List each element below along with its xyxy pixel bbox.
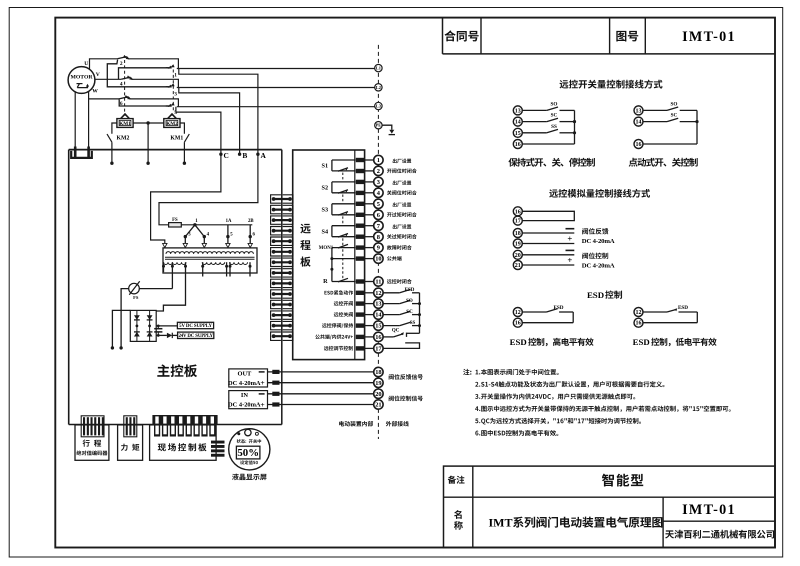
label 智能型: [602, 474, 643, 487]
label 阀位控制: [582, 253, 608, 259]
wire QC switch terminal 16: [383, 332, 419, 337]
board 行程/绝对值编码器: [75, 425, 109, 460]
svg-text:SO: SO: [406, 299, 413, 304]
transformer T1: [163, 248, 257, 273]
tap arrow 5: [227, 237, 229, 244]
terminal 18: [513, 229, 522, 238]
label 故障时闭合: [387, 245, 412, 250]
svg-text:21: 21: [375, 402, 381, 409]
ESD high-level group: [522, 309, 573, 323]
svg-text:3: 3: [377, 179, 380, 186]
switch MON1: [332, 244, 356, 258]
svg-text:50%: 50%: [237, 447, 259, 459]
tap arrow 3: [184, 237, 186, 244]
note line 1: [476, 369, 559, 375]
label 5V DC SUPPLY: [177, 322, 213, 329]
mechanical link KM1: [124, 60, 126, 113]
company 天津百利二通机械有限公司: [665, 530, 774, 539]
switch S4: [332, 226, 356, 237]
transformer secondary windings: [164, 262, 248, 264]
wire motor V to contact 4: [95, 78, 121, 80]
svg-text:14: 14: [515, 120, 521, 126]
label 液晶显示屏: [232, 474, 267, 481]
terminal L3: [375, 102, 382, 109]
svg-text:ESD: ESD: [510, 337, 527, 347]
title block table: [444, 466, 776, 547]
svg-text:IN: IN: [241, 392, 248, 399]
terminal 16: [513, 140, 522, 149]
svg-text:OUT: OUT: [237, 371, 252, 378]
boundary dashed line: [377, 45, 379, 439]
svg-text:W: W: [92, 88, 98, 94]
svg-text:1: 1: [377, 157, 380, 164]
switch S2: [332, 182, 356, 193]
svg-text:IMT-01: IMT-01: [682, 502, 736, 518]
label 备注: [448, 476, 465, 484]
wire phase B feed: [179, 88, 242, 156]
wire IN- to terminal 20: [268, 392, 374, 396]
svg-text:8: 8: [377, 234, 380, 241]
label 力矩: [121, 444, 139, 451]
note line 2: [475, 381, 664, 387]
svg-text:PE: PE: [376, 123, 382, 128]
note line 6: [475, 430, 558, 436]
wire ESD switch terminal 12: [383, 289, 419, 292]
fuse FS2 symbol: [129, 281, 140, 295]
svg-text:16: 16: [515, 142, 521, 148]
wire motor W lead: [88, 91, 90, 147]
wire tap 4 branch: [195, 225, 206, 239]
label 阀位反馈信号: [389, 374, 423, 380]
wire motor W to contact 6: [89, 98, 119, 100]
svg-text:2: 2: [120, 61, 123, 67]
svg-text:L1: L1: [376, 66, 381, 71]
wire SC switch terminal 14: [383, 311, 421, 316]
transformer secondary terminals: [162, 262, 252, 276]
note line 3: [475, 393, 635, 399]
label 点动式开、关控制: [629, 158, 698, 167]
drawing title IMT系列阀门电动装置电气原理图: [489, 516, 663, 530]
label 名称: [454, 510, 462, 519]
label 远控停阀/保持: [322, 323, 353, 328]
wire 5V DC rail: [156, 325, 177, 328]
svg-text:17: 17: [515, 219, 521, 225]
svg-text:SC: SC: [406, 310, 413, 315]
svg-text:16: 16: [515, 321, 521, 327]
svg-text:DC 4-20mA: DC 4-20mA: [582, 263, 615, 270]
svg-text:12: 12: [515, 310, 521, 316]
interlock contact KM2: [107, 123, 117, 165]
contactor KM1 contact 2: [117, 55, 129, 59]
title 远控开关量控制接线方式: [560, 80, 663, 89]
terminal 13: [634, 106, 643, 115]
svg-text:12: 12: [636, 310, 642, 316]
svg-text:12: 12: [375, 290, 381, 297]
capacitor C1: [154, 326, 162, 336]
label 出厂设置: [393, 202, 412, 207]
title ESD控制: [587, 290, 622, 300]
LCD display: [229, 429, 270, 470]
wire feedback -: [522, 229, 574, 233]
ESD low-level group: [643, 308, 697, 322]
wire power bus: [69, 149, 282, 151]
svg-text:SS: SS: [410, 321, 416, 326]
label 现场控制板: [158, 443, 207, 451]
terminal 16: [513, 318, 522, 327]
label 阀位控制信号: [389, 396, 423, 402]
wire jumper 16-17: [383, 343, 419, 349]
terminal 16: [634, 318, 643, 327]
node 1: [193, 223, 196, 226]
svg-text:20: 20: [515, 253, 521, 259]
wire motor lead left: [74, 92, 76, 147]
svg-text:KM1: KM1: [170, 136, 183, 142]
label 关阀位时闭合: [387, 190, 417, 195]
svg-text:SS: SS: [551, 124, 557, 130]
svg-text:IMT: IMT: [489, 516, 513, 530]
svg-text:24V DC SUPPLY: 24V DC SUPPLY: [178, 334, 213, 339]
terminal 19: [513, 239, 522, 248]
svg-text:2: 2: [377, 168, 380, 175]
contactor KM2 contact 1: [166, 64, 175, 68]
title 远控模拟量控制接线方式: [549, 189, 650, 198]
board 力矩: [118, 425, 143, 460]
svg-text:A: A: [261, 151, 267, 160]
contactor KM2 contact 5: [166, 103, 175, 107]
svg-text:1A: 1A: [226, 219, 232, 224]
wire contact 2 to L1 rail: [128, 59, 179, 69]
label 公共端/内供24V+: [315, 334, 353, 339]
wire L2 rail: [177, 87, 375, 89]
label 公共端: [387, 256, 402, 261]
board 现场控制板: [150, 425, 217, 460]
svg-text:+: +: [260, 378, 264, 387]
svg-text:16: 16: [636, 321, 642, 327]
wire IN+ to terminal 21: [268, 402, 374, 406]
terminal 14: [634, 117, 643, 126]
wires nubs to terminals: [364, 160, 374, 348]
svg-text:S3: S3: [322, 206, 329, 213]
svg-text:B: B: [242, 151, 247, 160]
interlock contact KM1: [180, 123, 189, 165]
terminal 20: [513, 250, 522, 259]
wire control +: [522, 255, 574, 265]
label ESD控制，高电平有效: [510, 337, 594, 347]
contactor KM1 contact 6: [119, 95, 131, 99]
local control connector: [152, 415, 217, 437]
svg-text:18: 18: [375, 369, 381, 376]
label 出厂设置: [393, 224, 412, 229]
label 设定值: [240, 460, 258, 464]
tap arrow 4: [203, 237, 205, 244]
svg-text:U: U: [84, 61, 88, 67]
label 状态 开关中: [237, 439, 262, 443]
ground: [382, 125, 395, 134]
svg-text:15: 15: [375, 323, 381, 330]
wire coil junction: [133, 121, 164, 165]
wire SS switch terminal 15: [383, 322, 421, 327]
hold-mode wiring group: [522, 107, 576, 144]
terminal column: [354, 150, 356, 360]
svg-text:L3: L3: [376, 104, 382, 109]
label 远控开阀: [334, 301, 353, 306]
svg-text:FS: FS: [172, 218, 178, 223]
svg-text:19: 19: [515, 242, 521, 248]
label 电动装置内部: [339, 421, 373, 427]
terminal L2: [375, 84, 382, 91]
svg-text:MON1: MON1: [319, 246, 334, 251]
motor M: [68, 67, 95, 94]
svg-text:21: 21: [515, 263, 521, 269]
svg-text:9: 9: [377, 245, 380, 252]
svg-text:+: +: [567, 255, 572, 265]
wire tap 3 branch: [184, 225, 195, 239]
jog-mode wiring group: [643, 107, 699, 144]
label 绝对值编码器: [76, 450, 107, 455]
display connector: [211, 441, 225, 457]
wire L3 rail: [177, 106, 375, 108]
label 远程板: [300, 224, 310, 267]
svg-text:FS: FS: [133, 295, 139, 300]
svg-text:+: +: [260, 400, 264, 409]
svg-text:R: R: [323, 278, 328, 285]
wire rectifier AC input: [111, 310, 131, 349]
wire control -: [522, 250, 574, 254]
svg-text:SO: SO: [671, 101, 678, 107]
svg-text:15: 15: [515, 131, 521, 137]
wire phase C feed: [176, 107, 223, 156]
contactor KM2 contact 3: [166, 83, 175, 87]
wire tap rail: [181, 224, 252, 226]
tap arrow 6: [249, 237, 251, 244]
wire secondary to rectifier: [156, 262, 185, 311]
svg-text:KM2: KM2: [117, 136, 130, 142]
label 开过矩时闭合: [387, 212, 417, 217]
svg-text:QC: QC: [392, 329, 400, 334]
svg-text:S1: S1: [322, 163, 329, 170]
label ESD控制，低电平有效: [633, 337, 717, 347]
svg-text:ESD: ESD: [587, 290, 604, 300]
contactor coil KM1: [117, 113, 133, 128]
terminal circles 1-21: [374, 155, 383, 409]
wire tap 5 branch: [226, 225, 229, 239]
svg-text:16: 16: [636, 142, 642, 148]
rectifier bridge: [130, 310, 156, 341]
svg-text:13: 13: [636, 108, 642, 114]
svg-text:ESD: ESD: [405, 288, 415, 293]
wire 24V DC rail: [156, 334, 167, 337]
svg-text:5: 5: [377, 201, 380, 208]
wire switch common bus: [419, 293, 421, 334]
mechanical link KM2: [172, 70, 174, 113]
fuse FS: [169, 223, 182, 227]
terminal 12: [513, 308, 522, 317]
svg-text:13: 13: [375, 301, 381, 308]
label 关过矩时闭合: [387, 234, 417, 239]
analog jumper 16-17: [522, 211, 574, 220]
label 图号: [616, 31, 638, 42]
contactor KM1 contact 4: [121, 75, 133, 79]
wire FS to supply common: [119, 289, 128, 350]
wire FS to transformer: [139, 288, 172, 290]
svg-text:S2: S2: [322, 184, 329, 191]
svg-text:18: 18: [515, 231, 521, 237]
svg-text:16: 16: [375, 334, 382, 341]
wire phase C to transformer: [151, 154, 221, 248]
svg-text:SC: SC: [551, 113, 558, 119]
note line 5: [475, 418, 641, 425]
svg-text:16: 16: [515, 209, 521, 215]
svg-text:MOTOR: MOTOR: [70, 74, 93, 80]
wire feedback +: [522, 233, 574, 243]
switch S3: [332, 204, 356, 215]
label 合同号: [445, 30, 479, 41]
diode D5: [167, 333, 178, 338]
terminal 12: [634, 308, 643, 317]
svg-text:20: 20: [375, 391, 381, 398]
terminal 14: [513, 117, 522, 126]
wire motor U to contact 2: [90, 59, 118, 70]
svg-text:ESD: ESD: [553, 305, 563, 311]
svg-text:SC: SC: [671, 113, 678, 119]
terminal 16: [634, 140, 643, 149]
encoder connector: [81, 416, 104, 437]
svg-text:10: 10: [375, 256, 381, 263]
wire contact 4 to L2 rail: [131, 79, 178, 87]
main board outline: [69, 150, 282, 425]
label 24V DC SUPPLY: [178, 332, 214, 339]
wire crossover V to contact 1: [119, 68, 169, 80]
svg-text:DC 4-20mA: DC 4-20mA: [582, 238, 615, 245]
svg-text:ESD: ESD: [633, 337, 650, 347]
block OUT DC 4-20mA: [228, 369, 267, 387]
note line 4: [475, 406, 731, 412]
terminal PE: [375, 122, 382, 129]
svg-text:L2: L2: [376, 85, 381, 90]
svg-text:IMT-01: IMT-01: [682, 29, 736, 45]
label ESD紧急动作: [324, 290, 353, 295]
svg-text:14: 14: [375, 312, 382, 319]
label 远控关阀: [334, 312, 353, 317]
remote board outline: [293, 150, 365, 360]
svg-text:11: 11: [375, 279, 381, 286]
wire OUT+ to terminal 19: [268, 381, 374, 385]
svg-text:2B: 2B: [248, 219, 254, 224]
label 行程: [83, 440, 102, 447]
svg-text:1: 1: [174, 72, 177, 78]
svg-text:14: 14: [636, 120, 642, 126]
label 主控板: [157, 364, 197, 377]
terminal 17: [513, 216, 522, 225]
notes 注: [463, 369, 471, 375]
svg-text:S4: S4: [322, 228, 329, 235]
terminal 16: [513, 207, 522, 216]
label 远控时闭合: [387, 279, 412, 284]
switch cam links: [342, 173, 344, 279]
display value 50%: [236, 446, 260, 459]
svg-text:19: 19: [375, 380, 381, 387]
contactor coil KM2: [164, 113, 180, 128]
tap arrow 0: [163, 243, 167, 247]
svg-text:DC 4-20mA: DC 4-20mA: [228, 402, 261, 409]
contract-no table: [443, 18, 776, 54]
terminal 21: [513, 261, 522, 270]
label 远控调节控制: [324, 346, 353, 351]
torque connector: [124, 416, 137, 437]
wire phase A feed: [179, 69, 260, 156]
label 阀位反馈: [582, 228, 608, 234]
wire SO switch terminal 13: [383, 300, 421, 305]
board connector strip: [271, 195, 293, 341]
label 出厂设置: [393, 181, 412, 186]
svg-text:C: C: [224, 151, 229, 160]
wire secondary to fuse FS: [171, 262, 173, 288]
terminal nubs: [356, 158, 365, 351]
label 开阀位时闭合: [387, 168, 417, 173]
switch R: [330, 257, 355, 282]
svg-text:V: V: [96, 72, 100, 78]
terminal 15: [513, 128, 522, 137]
switch S1: [332, 160, 356, 171]
label 出厂设置: [393, 159, 412, 164]
svg-text:5V DC SUPPLY: 5V DC SUPPLY: [179, 324, 212, 329]
wire phase A to fuse: [159, 154, 258, 225]
wire crossover W to contact 5: [119, 100, 169, 107]
overload block: [71, 147, 92, 159]
svg-text:SO: SO: [551, 101, 558, 107]
wire tap 6 branch: [249, 225, 252, 239]
svg-text:DC 4-20mA: DC 4-20mA: [228, 380, 261, 387]
svg-text:KM2: KM2: [166, 121, 178, 127]
wire crossover U to contact 3: [107, 60, 169, 87]
terminal L1: [177, 64, 382, 71]
wire contact 6 to L3 rail: [129, 99, 178, 107]
wire OUT- to terminal 18: [268, 370, 374, 374]
svg-text:KM1: KM1: [119, 121, 131, 127]
wire L1 rail: [177, 68, 375, 70]
label 外部接线: [386, 421, 409, 427]
svg-text:ESD: ESD: [678, 305, 688, 311]
svg-text:13: 13: [515, 108, 521, 114]
block IN DC 4-20mA: [228, 391, 267, 409]
svg-text:3: 3: [174, 91, 177, 97]
svg-text:+: +: [567, 233, 572, 243]
label 保持式开、关、停控制: [508, 158, 594, 167]
svg-text:17: 17: [375, 346, 382, 353]
terminal 13: [513, 106, 522, 115]
